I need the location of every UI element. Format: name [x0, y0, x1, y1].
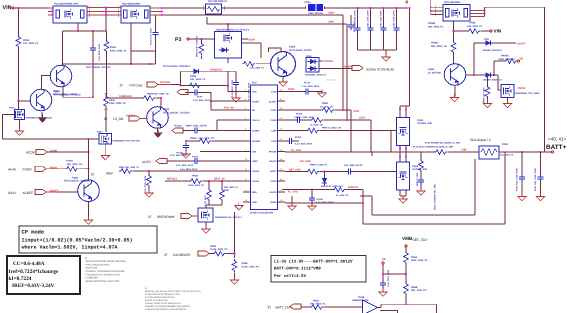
- svg-text:DMN3064W_CP3_SOT23D: DMN3064W_CP3_SOT23D: [113, 139, 141, 142]
- svg-text:SCOMP: SCOMP: [252, 140, 261, 143]
- wire gate row y139: [2, 138, 99, 140]
- svg-text:R:: R:: [85, 257, 88, 260]
- capacitor PC33: [380, 7, 387, 50]
- capacitor PC39: [350, 15, 352, 22]
- wire collector rail y63.9: [63, 63, 156, 65]
- svg-text:EN1_3%: EN1_3%: [224, 107, 235, 110]
- svg-text:LS_DB: LS_DB: [113, 117, 123, 121]
- capacitor PC32: [367, 7, 374, 50]
- wire PQ11 source to ground: [104, 144, 106, 155]
- resistor PR08: [188, 83, 201, 88]
- svg-text:C19V: C19V: [353, 110, 360, 113]
- wire VIN rail: [14, 7, 53, 9]
- svg-text:SUNVCC: SUNVCC: [348, 186, 359, 189]
- svg-text:FL_CHG: FL_CHG: [288, 191, 298, 194]
- svg-text:<40, 41>: <40, 41>: [412, 237, 428, 242]
- svg-text:CSSP: CSSP: [271, 109, 277, 112]
- wire PQ3 bottom pin: [453, 21, 455, 42]
- capacitor PC30: [185, 140, 187, 142]
- svg-text:ACSET: ACSET: [252, 100, 260, 103]
- junction: [105, 7, 107, 9]
- resistor PR09: [106, 31, 108, 96]
- svg-text:DMN3064W_T05_A2361: DMN3064W_T05_A2361: [515, 92, 540, 95]
- note text small block: [85, 257, 126, 283]
- svg-text:+1.3887*067: +1.3887*067: [85, 277, 99, 280]
- wire drain drop to PQ62: [400, 8, 410, 118]
- svg-text:33,41: 33,41: [8, 191, 16, 195]
- ground PC34: [318, 90, 326, 98]
- svg-text:PQ6: PQ6: [484, 38, 489, 41]
- mosfet PQ62 high side: [397, 118, 410, 146]
- sense resistor PR33: [308, 4, 316, 11]
- wire PQ64 top pins: [400, 152, 406, 162]
- wire PQ82 collector: [88, 139, 90, 180]
- svg-text:BATT+: BATT+: [546, 144, 567, 151]
- svg-text:5CA-06ppa / C: 5CA-06ppa / C: [470, 138, 492, 142]
- svg-text:SC8SA-A21C(SSOP): SC8SA-A21C(SSOP): [250, 212, 273, 215]
- svg-text:Per cell=4.5V: Per cell=4.5V: [274, 274, 306, 279]
- wire PR06 branch: [18, 8, 20, 36]
- svg-text:UGATE: UGATE: [269, 160, 277, 163]
- svg-text:CC=0.6-4.48A: CC=0.6-4.48A: [13, 261, 45, 267]
- svg-text:47K_0402_PL: 47K_0402_PL: [467, 25, 483, 28]
- resistor PR66: [333, 187, 346, 192]
- svg-text:PSON: PSON: [23, 167, 33, 171]
- svg-text:PQ4 SY52306/11-12_SOT23-3: PQ4 SY52306/11-12_SOT23-3: [216, 29, 250, 32]
- svg-text:GND: GND: [252, 201, 257, 204]
- svg-text:15.0K_0402_PC: 15.0K_0402_PC: [210, 248, 228, 251]
- transistor PQ08: [147, 107, 169, 129]
- resistor PR98 snubber: [420, 152, 422, 160]
- svg-text:VCOP: VCOP: [270, 180, 277, 183]
- resistor PR62: [454, 30, 468, 32]
- wire VDD from loop: [228, 85, 243, 91]
- svg-text:0.1U_0402_25VK: 0.1U_0402_25VK: [193, 99, 211, 102]
- svg-text:6.8J_0805_25VTK: 6.8J_0805_25VTK: [344, 164, 363, 167]
- svg-text:DMN3064W_04L_SOT23D: DMN3064W_04L_SOT23D: [26, 117, 53, 120]
- wire PGND kelvin: [285, 152, 505, 224]
- ground IC GND pin: [238, 202, 240, 205]
- svg-text:45K_0402_PL: 45K_0402_PL: [428, 25, 444, 28]
- capacitor PC51: [540, 152, 542, 175]
- wire row19: [282, 190, 363, 225]
- svg-text:37: 37: [164, 253, 168, 257]
- wire VMB divider: [405, 247, 407, 252]
- svg-text:PD11 HZD5.6_SOD523-2: PD11 HZD5.6_SOD523-2: [163, 65, 191, 68]
- svg-text:20_0402_1%: 20_0402_1%: [320, 106, 333, 109]
- svg-text:ACOK2: ACOK2: [126, 115, 135, 118]
- svg-text:47_0402_PL: 47_0402_PL: [336, 194, 349, 197]
- resistor PR59: [213, 251, 226, 256]
- capacitor PC61: [208, 181, 210, 189]
- resistor PR97: [221, 181, 223, 189]
- svg-text:ACLIM: ACLIM: [252, 180, 259, 183]
- box CC mode: [7, 256, 80, 294]
- svg-text:PR060-45L_0402_1/8: PR060-45L_0402_1/8: [147, 93, 169, 96]
- wire rail after fuse: [222, 7, 307, 9]
- wire op-amp output: [378, 304, 437, 313]
- svg-text:PC34: PC34: [304, 82, 311, 85]
- wire row22 to PQ62 gate: [285, 131, 397, 153]
- svg-text:DMN3064W-V19_SOT23-3: DMN3064W-V19_SOT23-3: [215, 216, 242, 219]
- svg-text:BATT_OVP: BATT_OVP: [276, 305, 292, 309]
- mosfet PQ64b: [501, 85, 514, 98]
- ground PR68: [234, 273, 236, 279]
- resistor PR6B: [404, 282, 409, 295]
- wire loop PD11: [181, 71, 229, 85]
- svg-text:kI=0.7224: kI=0.7224: [9, 276, 32, 282]
- diode PD60: [324, 171, 326, 173]
- resistor PR9A: [487, 75, 489, 86]
- wire diode to ACOFF: [493, 42, 516, 44]
- wire PC07 to ACSET: [211, 93, 243, 102]
- svg-text:<40, 41>: <40, 41>: [548, 137, 566, 142]
- wire CHLIM row: [133, 170, 243, 172]
- svg-text:CHLIM: CHLIM: [252, 170, 259, 173]
- mosfet PQ1: [53, 6, 87, 23]
- wire to PQ6 gate: [192, 215, 198, 217]
- svg-text:CSIN: CSIN: [328, 12, 334, 15]
- wire EN row: [211, 101, 243, 110]
- wire PHASE row: [285, 151, 434, 153]
- svg-text:Iref=0.7224*Ichanrge: Iref=0.7224*Ichanrge: [9, 269, 59, 275]
- svg-text:VB: VB: [382, 258, 386, 261]
- svg-text:100K_0402_PC: 100K_0402_PC: [109, 102, 126, 105]
- resistor PR05: [142, 96, 155, 101]
- svg-text:PC05 0.1U_0402: PC05 0.1U_0402: [150, 27, 153, 45]
- wire ACOK row: [47, 151, 89, 153]
- svg-text:1.34DK3V258T342/041 m=04.5P873: 1.34DK3V258T342/041 m=04.5P8734(.0X: [145, 308, 187, 311]
- resistor PR64: [310, 118, 323, 123]
- capacitor PC63: [285, 140, 287, 142]
- svg-text:%RGAa2.047/2R052 (50%R=2R07%%): %RGAa2.047/2R052 (50%R=2R07%%): [85, 260, 126, 263]
- svg-text:ICOMP: ICOMP: [252, 130, 260, 133]
- wire PQ06 collector: [269, 48, 282, 53]
- port ICOMP arrow: [172, 128, 183, 133]
- ground PQ64b: [507, 98, 509, 103]
- svg-text:IREF=0.43V-3.24V: IREF=0.43V-3.24V: [12, 283, 55, 289]
- diode PD11: [191, 69, 201, 74]
- wire PQ2 right pins: [150, 8, 163, 15]
- svg-text:+20478.045: +20478.045: [85, 267, 98, 270]
- svg-text:UCA462_S08: UCA462_S08: [417, 122, 432, 125]
- svg-text:PR98 2_0402: PR98 2_0402: [416, 172, 419, 186]
- IC PU2 charger controller: [251, 85, 278, 210]
- svg-text:1SS355_SOD523-2: 1SS355_SOD523-2: [483, 49, 503, 52]
- svg-text:PC07: PC07: [197, 96, 203, 99]
- wire to inductor: [448, 151, 479, 153]
- wire cap bank bottom rail: [358, 49, 397, 51]
- svg-text:C29V: C29V: [359, 117, 366, 120]
- wire PR05 to PQ08: [156, 98, 161, 107]
- capacitor PC64: [346, 169, 354, 175]
- svg-text:BATT-OVP=0.1112*VMB: BATT-OVP=0.1112*VMB: [274, 267, 321, 272]
- svg-text:ICM: ICM: [252, 151, 256, 154]
- wire CSIN kelvin: [372, 152, 475, 215]
- wire ACLIM row: [165, 180, 243, 182]
- wire PSON row: [46, 168, 65, 170]
- svg-text:Minternal_Ine2.85 Vm=-05 ID-: Minternal_Ine2.85 Vm=-05 ID-PRIIV=1.45 I…: [145, 290, 201, 293]
- resistor PR63: [321, 108, 334, 113]
- resistor PR06: [16, 35, 21, 48]
- wire ICM row: [200, 151, 243, 153]
- wire to PQ64b gate: [493, 75, 501, 90]
- svg-text:PR23 110K_0402_PL: PR23 110K_0402_PL: [196, 35, 199, 57]
- svg-text:10M0_R02-1W: 10M0_R02-1W: [308, 12, 324, 15]
- svg-text:-ICHARGx_20UR/55655*1054.025.8: -ICHARGx_20UR/55655*1054.025.8%: [85, 270, 124, 273]
- svg-text:PHASE: PHASE: [269, 151, 277, 154]
- svg-text:VDD: VDD: [252, 91, 257, 94]
- mosfet PQ4: [215, 32, 242, 59]
- svg-text:4.7U_0402_16VK: 4.7U_0402_16VK: [170, 154, 188, 157]
- svg-text:200K_0402_PL: 200K_0402_PL: [110, 49, 127, 52]
- svg-text:-56045.756775002@ x05a0.7332: -56045.756775002@ x05a0.7332: [85, 280, 120, 283]
- wire row23: [285, 120, 371, 152]
- svg-text:PDTC114EUL_SOT23D: PDTC114EUL_SOT23D: [64, 180, 90, 183]
- svg-text:DUAL_POWER_041_2R6: DUAL_POWER_041_2R6: [434, 184, 437, 210]
- terminal dot VIN: [12, 7, 14, 9]
- wire to VIN dot: [481, 30, 490, 32]
- resistor PR23: [201, 39, 203, 42]
- svg-text:PQ2 QM3054M6: PQ2 QM3054M6: [122, 3, 141, 6]
- svg-text:FSTCHG: FSTCHG: [323, 60, 333, 63]
- svg-text:CSIP: CSIP: [271, 130, 277, 133]
- mosfet PQ6: [198, 208, 213, 222]
- svg-text:DCIN: DCIN: [288, 88, 294, 91]
- ground PQ06: [282, 76, 284, 82]
- svg-text:CELLS: CELLS: [252, 119, 260, 122]
- svg-text:PR63: PR63: [322, 102, 329, 105]
- ground cap bank: [385, 50, 387, 56]
- svg-text:300K_0402_PL: 300K_0402_PL: [499, 58, 516, 61]
- IC pin numbers: [245, 89, 283, 203]
- svg-text:59K_0402_1%: 59K_0402_1%: [431, 45, 448, 48]
- wire PQ4 top pin: [227, 24, 229, 32]
- svg-text:0.1U_0402_25VK: 0.1U_0402_25VK: [180, 168, 198, 171]
- svg-text:LPM15CO: LPM15CO: [210, 69, 222, 72]
- wire PQ4 drain: [242, 38, 249, 40]
- wire PR06 to PQ9: [18, 48, 20, 101]
- svg-text:FSTCHG: FSTCHG: [130, 84, 144, 88]
- svg-text:IREF: IREF: [106, 172, 113, 176]
- wire DCIN row: [285, 91, 319, 93]
- ground PQ82: [88, 201, 90, 219]
- svg-text:39K_0402_PL: 39K_0402_PL: [310, 303, 326, 306]
- svg-text:PL03 POWER 041-100NH-LA_2R6: PL03 POWER 041-100NH-LA_2R6: [425, 142, 461, 145]
- svg-text:PC62: PC62: [296, 113, 303, 116]
- wire FSTCHG: [158, 84, 172, 86]
- ground PQ63: [454, 85, 456, 97]
- wire CHARGED row: [106, 97, 143, 99]
- svg-text:CALIBRATE: CALIBRATE: [173, 253, 190, 257]
- resistor PR07: [242, 61, 255, 66]
- svg-text:PDTC114EU/L_SOT23D: PDTC114EU/L_SOT23D: [86, 66, 111, 69]
- svg-text:PGND: PGND: [270, 201, 277, 204]
- svg-text:REFADJ: REFADJ: [167, 178, 177, 181]
- svg-text:44,45: 44,45: [8, 167, 16, 171]
- svg-text:PDTC143ZU_SOT23: PDTC143ZU_SOT23: [289, 49, 312, 52]
- svg-text:PR33: PR33: [305, 1, 312, 4]
- junction: [18, 7, 20, 9]
- svg-text:ACOK: ACOK: [26, 150, 36, 154]
- svg-text:DH_CHG: DH_CHG: [300, 160, 311, 163]
- IC pin names left: [252, 91, 261, 204]
- svg-text:PQ1 QM3054M6_DFN: PQ1 QM3054M6_DFN: [54, 3, 78, 6]
- svg-text:G=24R2.54/R2/74.5Rx28.1V5: G=24R2.54/R2/74.5Rx28.1V5: [145, 296, 175, 299]
- svg-text:Iinput=(1/0.02)(0.05*Vaclm/2.3: Iinput=(1/0.02)(0.05*Vaclm/2.39+0.05): [22, 238, 133, 244]
- svg-text:33_0402_1%: 33_0402_1%: [310, 124, 323, 127]
- svg-text:EN: EN: [252, 109, 255, 112]
- ground PC6A: [379, 289, 387, 297]
- svg-text:680P_0402_25VTK: 680P_0402_25VTK: [186, 125, 207, 128]
- capacitor PC08: [228, 71, 236, 81]
- wire PQ05 emitter loop: [63, 87, 93, 97]
- capacitor PC34: [303, 89, 311, 95]
- svg-text:PF2 NRLR25CT4: PF2 NRLR25CT4: [208, 0, 228, 3]
- svg-text:PR65 33_0402_1%: PR65 33_0402_1%: [322, 127, 341, 130]
- svg-text:10K_0402_PL: 10K_0402_PL: [190, 78, 206, 81]
- svg-text:104_0402_25VK: 104_0402_25VK: [144, 175, 147, 192]
- svg-text:uT50_T51a: uT50_T51a: [326, 79, 337, 82]
- svg-text:+PC55: +PC55: [316, 198, 324, 201]
- svg-text:37: 37: [268, 305, 272, 309]
- mosfet PQ2: [121, 6, 150, 23]
- svg-text:PC50 10U_1206_25VK: PC50 10U_1206_25VK: [516, 168, 519, 191]
- wire VREF row: [167, 160, 243, 162]
- wire to PR6C: [301, 306, 310, 308]
- net FSTCHG: [319, 60, 322, 62]
- svg-text:ACL_03G_PL: ACL_03G_PL: [500, 153, 515, 156]
- svg-text:DCIN: DCIN: [249, 38, 255, 41]
- wire drain drop: [105, 8, 107, 32]
- box Li-ion note: [271, 256, 366, 283]
- wire PQ62 bottom pins: [400, 146, 406, 153]
- svg-text:1SS355_SOD523-2: 1SS355_SOD523-2: [483, 78, 503, 81]
- svg-text:37: 37: [91, 173, 95, 177]
- svg-text:10.0K_0402_PC: 10.0K_0402_PC: [188, 184, 205, 187]
- resistor PR2A: [65, 166, 78, 171]
- wire to op-amp: [324, 306, 363, 308]
- ground PQ6: [205, 222, 207, 228]
- svg-text:0.1U_0402_25VK: 0.1U_0402_25VK: [295, 143, 313, 146]
- svg-text:0.1U_0402_25VK: 0.1U_0402_25VK: [302, 85, 320, 88]
- resistor PR65: [306, 128, 319, 133]
- wire PQ06 base: [256, 63, 272, 65]
- svg-text:PR28 = 10K_0402_PC: PR28 = 10K_0402_PC: [190, 137, 215, 140]
- note text block bottom: [145, 287, 201, 311]
- power dot: [406, 1, 408, 3]
- transistor PQ82: [78, 180, 100, 202]
- diode PD63: [467, 74, 484, 76]
- transistor PQ05: [50, 65, 72, 87]
- svg-text:PR26: PR26: [192, 175, 199, 178]
- transistor PQ63: [444, 64, 466, 86]
- wire BATT+ line: [499, 151, 552, 153]
- svg-text:FSTCHG: FSTCHG: [160, 81, 170, 84]
- svg-text:PDTC114EUL_SOT23: PDTC114EUL_SOT23: [53, 93, 78, 96]
- sections injected below: [3, 3, 164, 102]
- svg-text:DCIN: DCIN: [271, 91, 277, 94]
- wire LS_DB to PQ08 base: [140, 118, 148, 120]
- svg-text:PQ10: PQ10: [9, 107, 15, 110]
- svg-text:4.7U_0402_16VK: 4.7U_0402_16VK: [316, 201, 334, 204]
- svg-text:where Vaclm=1.502V, Iinput=4.0: where Vaclm=1.502V, Iinput=4.07A: [22, 245, 118, 251]
- svg-text:PR50: PR50: [502, 143, 509, 146]
- capacitor PC07: [192, 90, 200, 96]
- ground PQ9 (filled): [41, 112, 43, 117]
- svg-text:CSIP: CSIP: [328, 21, 334, 24]
- capacitor PC05: [155, 15, 157, 64]
- svg-text:PQ3 QM3006D: PQ3 QM3006D: [444, 1, 461, 4]
- wire to SUS port: [319, 68, 352, 70]
- svg-text:PC63: PC63: [295, 136, 302, 139]
- wire P3 to PQ4: [189, 38, 215, 40]
- svg-text:CHARGED: CHARGED: [119, 95, 132, 98]
- capacitor PC6A: [380, 280, 386, 288]
- svg-text:0.1U_0402_25VK: 0.1U_0402_25VK: [176, 164, 194, 167]
- svg-text:IREFKPWM: IREFKPWM: [157, 215, 175, 219]
- capacitor PC29: [192, 128, 200, 134]
- wire collector drop: [62, 31, 64, 65]
- wire kelvin top: [63, 30, 107, 32]
- ground PQ10: [19, 120, 21, 131]
- svg-text:10U_1206_25VK: 10U_1206_25VK: [354, 10, 357, 27]
- capacitor PC06: [92, 31, 94, 97]
- ground PR24: [148, 187, 150, 192]
- svg-text:+Iref=2.00k/81.00-20%x: +Iref=2.00k/81.00-20%x: [85, 263, 110, 266]
- svg-text:CSIN: CSIN: [271, 140, 277, 143]
- svg-text:Ref2=0.17+5163 0.5Pa: Ref2=0.17+5163 0.5Pa: [145, 299, 168, 302]
- svg-text:20K_0402_PL: 20K_0402_PL: [224, 186, 239, 189]
- wire CSIN row: [163, 15, 343, 110]
- svg-text:PSON: PSON: [518, 87, 525, 90]
- wire rail to fuse: [163, 7, 206, 9]
- svg-text:PR61 15K_0402_PL: PR61 15K_0402_PL: [119, 166, 140, 169]
- wire PQ3 right pins: [470, 11, 485, 17]
- wire PQ2 bottom pin: [131, 23, 156, 64]
- svg-text:37: 37: [148, 215, 152, 219]
- transistor PQ9: [30, 89, 52, 111]
- wire PQ4 pin5: [242, 43, 262, 58]
- svg-text:VIN: VIN: [494, 29, 502, 34]
- svg-text:(U_SOT23D: (U_SOT23D: [428, 72, 441, 75]
- capacitor PC62: [295, 117, 303, 123]
- resistor PR01: [104, 95, 109, 108]
- wire VB: [383, 265, 406, 282]
- ground stray: [291, 196, 293, 205]
- resistor PR958: [494, 60, 505, 62]
- mosfet PQ64 low side: [397, 162, 410, 190]
- svg-text:PR60 2_0402_PL: PR60 2_0402_PL: [310, 164, 328, 167]
- svg-text:DL_CHG: DL_CHG: [291, 149, 301, 152]
- resistor PR6C: [310, 305, 323, 310]
- IC pin stubs right: [278, 92, 286, 203]
- svg-text:PR9A 1M_0402: PR9A 1M_0402: [483, 87, 486, 103]
- svg-text:56K_0402_PC: 56K_0402_PC: [411, 289, 427, 292]
- capacitor PC55: [311, 189, 313, 191]
- svg-text:BOOT: BOOT: [270, 170, 277, 173]
- resistor PR961: [451, 41, 456, 54]
- resistor PR62b: [232, 259, 237, 272]
- resistor PR24: [148, 170, 150, 172]
- op-amp PU3B: [363, 300, 378, 313]
- svg-text:PR97: PR97: [224, 189, 230, 192]
- resistor PR26: [189, 179, 202, 184]
- IC pin names right: [269, 91, 277, 204]
- transistor PQ06: [271, 52, 296, 77]
- svg-text:0.2845.175702(12.53P w/562)x4.: 0.2845.175702(12.53P w/562)x4.7%: [145, 302, 181, 305]
- diode PD6: [474, 43, 484, 75]
